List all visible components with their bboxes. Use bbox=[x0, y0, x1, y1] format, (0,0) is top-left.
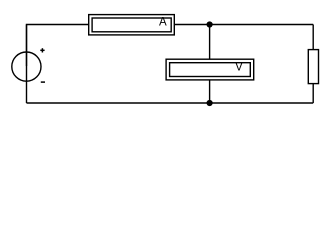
wire bottom from source to resistor bbox=[27, 102, 314, 104]
voltage source V1 circle bbox=[12, 52, 41, 81]
wire left vertical through source to bottom bbox=[26, 25, 28, 104]
ammeter A1 outer box bbox=[89, 15, 175, 35]
junction node bottom bbox=[207, 100, 213, 106]
wire top-right from ammeter to resistor corner bbox=[174, 24, 313, 26]
wire middle vertical from voltmeter to bottom node bbox=[209, 80, 211, 103]
svg-text:A: A bbox=[159, 17, 167, 29]
svg-text:V: V bbox=[235, 62, 243, 74]
wire middle vertical from top node to voltmeter bbox=[209, 25, 211, 60]
wire right vertical from resistor R1 to bottom bbox=[312, 84, 314, 103]
resistor R1 body bbox=[308, 50, 318, 84]
plus polarity mark of source bbox=[40, 49, 44, 51]
ammeter A1 inner box bbox=[92, 18, 171, 32]
junction node top bbox=[207, 21, 213, 27]
wire top-left from source to ammeter bbox=[27, 25, 89, 67]
wire right vertical from top to resistor R1 bbox=[312, 25, 314, 50]
minus polarity mark of source bbox=[41, 81, 45, 83]
voltmeter V1 outer box bbox=[166, 59, 254, 80]
voltmeter V1 inner box bbox=[170, 63, 251, 77]
